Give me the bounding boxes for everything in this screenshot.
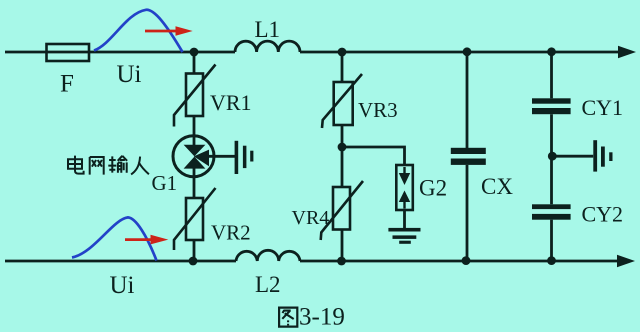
ground (chassis, right-facing) at G1 — [235, 141, 254, 174]
capacitor CY2 — [532, 204, 571, 219]
图 — [279, 308, 297, 327]
svg-text:CY2: CY2 — [582, 202, 624, 227]
node bottom CX — [462, 256, 471, 265]
输 — [108, 156, 127, 173]
wire CY2 bottom — [550, 220, 553, 261]
wire node to VR4 — [341, 147, 344, 187]
wire VR3 top — [341, 52, 344, 82]
red arrow bottom — [125, 238, 153, 241]
wire CY node to ground — [552, 155, 593, 158]
svg-text:VR2: VR2 — [211, 221, 251, 245]
inductor L1 — [235, 41, 300, 52]
node bottom-left — [189, 257, 198, 266]
varistor VR2 — [174, 188, 216, 250]
fuse F — [47, 44, 90, 61]
svg-text:3-19: 3-19 — [299, 304, 345, 331]
capacitor CX — [451, 148, 486, 165]
svg-text:Ui: Ui — [110, 272, 135, 299]
svg-text:VR4: VR4 — [292, 207, 330, 229]
node top-left — [190, 48, 199, 57]
svg-text:VR3: VR3 — [358, 98, 398, 122]
电 — [68, 156, 84, 174]
arrow bottom right — [617, 255, 635, 267]
svg-text:CX: CX — [481, 174, 513, 199]
gas discharge tube G1 — [173, 136, 214, 177]
wire G2 to ground — [403, 210, 406, 229]
red arrow top — [145, 30, 177, 33]
wire G1 to ground — [206, 155, 235, 158]
wire top line R — [300, 51, 621, 54]
wire CY1 top — [550, 52, 553, 98]
node VR3/VR4/G2 — [338, 143, 347, 152]
ground (chassis, right-facing) at CY — [593, 140, 612, 171]
wire VR4 bottom — [341, 230, 344, 262]
wire CX bottom — [466, 165, 469, 261]
capacitor CY1 — [532, 98, 571, 114]
wire VR2 bottom — [193, 240, 196, 261]
svg-text:CY1: CY1 — [582, 95, 624, 120]
label 图3-19 — [279, 308, 297, 327]
wire CX top — [466, 52, 469, 148]
spark gap G2 — [396, 165, 413, 210]
svg-text:G2: G2 — [419, 176, 447, 201]
surge pulse bottom (blue) — [72, 217, 157, 260]
node bottom VR4 — [337, 257, 346, 266]
wire VR3 to node — [341, 125, 344, 147]
wire VR1 to G1 — [193, 116, 196, 146]
svg-text:L1: L1 — [255, 17, 281, 42]
svg-text:VR1: VR1 — [210, 90, 252, 115]
wire CY1 to CY2 — [550, 114, 553, 204]
surge pulse top (blue) — [94, 10, 183, 52]
node CY mid — [548, 152, 557, 161]
node top CY — [547, 47, 556, 56]
wire bottom line L — [5, 260, 236, 263]
wire G1 to VR2 — [193, 167, 196, 198]
wire bottom line R — [300, 260, 620, 263]
varistor VR3 — [322, 74, 362, 128]
label 电网输入 (hand-drawn glyphs) — [68, 156, 149, 175]
网 — [90, 157, 104, 175]
inductor L2 — [236, 250, 300, 261]
svg-text:G1: G1 — [152, 171, 178, 195]
node bottom CY — [547, 256, 556, 265]
varistor VR4 — [321, 181, 363, 240]
arrow top right — [618, 46, 636, 58]
node top VR3 — [338, 48, 347, 57]
wire top line L — [5, 51, 235, 54]
svg-text:Ui: Ui — [117, 61, 142, 88]
ground (earth) below G2 — [388, 228, 420, 244]
svg-text:L2: L2 — [255, 272, 281, 297]
wire node to G2 — [342, 147, 405, 165]
node top CX — [463, 47, 472, 56]
varistor VR1 — [174, 65, 216, 127]
svg-text:F: F — [60, 71, 74, 98]
入 — [131, 157, 149, 175]
wire VR1 top — [193, 52, 196, 74]
